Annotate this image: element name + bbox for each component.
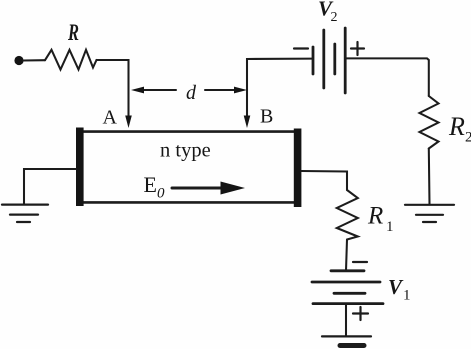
svg-text:B: B xyxy=(260,106,273,128)
svg-text:1: 1 xyxy=(403,288,411,304)
dimension arrows d between A and B xyxy=(131,87,247,94)
label: V1 plus sign xyxy=(353,307,368,320)
svg-text:A: A xyxy=(103,107,118,129)
wire: bar right electrode to R1 (corner, down) xyxy=(301,171,347,190)
resistor R1 xyxy=(337,190,358,240)
resistor R2 xyxy=(420,96,439,149)
label E0 with field-direction arrow xyxy=(144,172,246,202)
arrowhead into node A xyxy=(125,116,132,129)
svg-text:2: 2 xyxy=(465,130,471,146)
battery V1 xyxy=(312,271,383,304)
wire: node B corner to battery V2 negative plate xyxy=(247,59,313,62)
svg-text:E: E xyxy=(144,172,157,197)
wire: R1 to battery V1 xyxy=(346,240,347,271)
svg-text:R: R xyxy=(367,203,383,230)
node: input terminal dot xyxy=(14,56,23,65)
wire: R2 to right ground xyxy=(428,149,431,205)
label: V1 minus sign xyxy=(353,261,367,263)
wire: battery V2 branch down to node B xyxy=(246,62,248,117)
ground (left) xyxy=(2,205,48,222)
label: V2 minus sign xyxy=(294,47,308,49)
svg-text:2: 2 xyxy=(331,10,338,25)
wire: terminal to resistor R xyxy=(23,59,45,61)
svg-text:0: 0 xyxy=(157,186,165,202)
svg-text:1: 1 xyxy=(386,219,394,235)
n-type bar: left electrode (thick contact) xyxy=(76,128,84,207)
wire: battery V2 positive to R2 (corner, down) xyxy=(345,58,429,96)
arrowhead into node B xyxy=(244,116,251,129)
wire: resistor R to node A (corner, down) xyxy=(97,60,129,117)
ground (bottom, below V1) xyxy=(322,336,371,345)
wire: bar left electrode to left ground xyxy=(24,169,76,204)
label: V2 plus sign xyxy=(351,42,364,55)
svg-text:R: R xyxy=(67,20,79,45)
svg-text:d: d xyxy=(186,82,197,104)
svg-text:V: V xyxy=(388,275,404,299)
n-type semiconductor bar (body) xyxy=(80,132,298,203)
ground (right, below R2) xyxy=(405,205,454,222)
resistor R xyxy=(45,50,97,70)
wire: battery V1 to bottom ground xyxy=(345,304,347,336)
svg-text:n type: n type xyxy=(160,140,211,162)
battery V2 xyxy=(313,28,345,93)
n-type bar: right electrode (thick contact) xyxy=(294,129,302,208)
svg-text:R: R xyxy=(448,112,465,141)
